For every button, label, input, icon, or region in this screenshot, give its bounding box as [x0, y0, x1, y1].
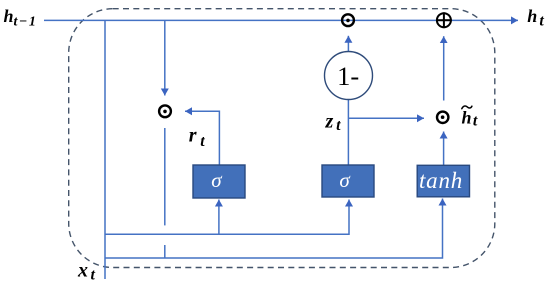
svg-text:1-: 1- [337, 61, 359, 91]
svg-text:σ: σ [211, 168, 223, 192]
svg-text:tanh: tanh [419, 168, 463, 193]
svg-text:σ: σ [339, 168, 351, 192]
